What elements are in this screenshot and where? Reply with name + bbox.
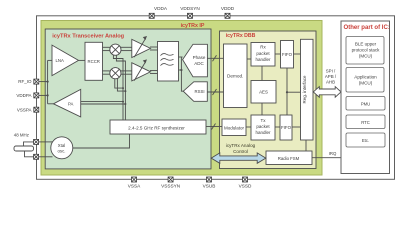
pin RF_IO bbox=[34, 79, 39, 84]
svg-text:VSUB: VSUB bbox=[203, 184, 216, 189]
svg-text:VDDSYN: VDDSYN bbox=[180, 6, 200, 11]
wire mixer1 to amp1 pair bbox=[120, 46, 132, 48]
icyTRx Transceiver Analog box bbox=[45, 29, 211, 169]
wire VDDPA stub bbox=[39, 94, 48, 96]
svg-text:SPI /: SPI / bbox=[326, 69, 336, 74]
wire RF_IO to junction bbox=[39, 81, 48, 83]
wire RCCR to mixer1 pair bbox=[103, 46, 111, 48]
svg-text:Other part of IC:: Other part of IC: bbox=[344, 25, 390, 31]
svg-text:icyTRx DBB: icyTRx DBB bbox=[226, 33, 256, 39]
RF synthesizer bbox=[110, 120, 206, 134]
svg-text:icyTRx IP: icyTRx IP bbox=[181, 23, 205, 29]
wire filter lower tap bbox=[179, 69, 182, 71]
FIFO 2 bbox=[280, 115, 292, 140]
wire crystal bottom bbox=[25, 151, 34, 157]
svg-text:Reg. interface: Reg. interface bbox=[302, 75, 307, 104]
Tx packet handler bbox=[251, 115, 275, 140]
wire vertical to RSSI bbox=[181, 57, 183, 91]
Other part of IC box bbox=[341, 21, 390, 174]
LO junction dots bbox=[122, 87, 124, 89]
svg-text:AES: AES bbox=[259, 90, 268, 95]
mixer M1 bbox=[110, 44, 121, 55]
svg-text:VSSPA: VSSPA bbox=[17, 107, 32, 112]
wire tx to fifo2 bbox=[275, 126, 280, 128]
svg-text:Rx: Rx bbox=[260, 45, 266, 50]
svg-text:VDDPA: VDDPA bbox=[16, 93, 31, 98]
wire vertical RF trunk bbox=[47, 60, 49, 103]
svg-text:FIFO: FIFO bbox=[282, 52, 293, 57]
wire synth to modulator bbox=[206, 126, 222, 128]
outer chip box bbox=[37, 16, 395, 180]
wire filter to Phase ADC tip bbox=[179, 56, 183, 58]
svg-text:(MCU): (MCU) bbox=[359, 80, 373, 85]
wire mixer2 to amp2 pair bbox=[120, 70, 132, 72]
Radio FSM bbox=[266, 151, 312, 165]
wire modulator to tx bbox=[246, 126, 251, 128]
wire fifo2 to reg bbox=[292, 126, 301, 128]
svg-text:PMU: PMU bbox=[361, 101, 370, 106]
svg-text:Modulator: Modulator bbox=[224, 125, 245, 130]
svg-text:Demod.: Demod. bbox=[227, 74, 243, 79]
svg-text:RF_IO: RF_IO bbox=[18, 79, 32, 84]
wire reg to radio fsm bbox=[305, 140, 307, 151]
svg-text:VDDD: VDDD bbox=[221, 6, 235, 11]
crystal 48MHz bbox=[14, 146, 34, 151]
svg-text:VDDA: VDDA bbox=[154, 6, 168, 11]
Etc box bbox=[346, 133, 385, 147]
pin VDDPA bbox=[34, 93, 39, 98]
svg-text:VSSSYN: VSSSYN bbox=[161, 184, 180, 189]
Application box bbox=[346, 68, 384, 93]
svg-text:2.4-2.5 GHz RF synthesizer: 2.4-2.5 GHz RF synthesizer bbox=[128, 125, 185, 130]
wire Phase ADC to Demod bbox=[207, 57, 223, 59]
wire LO trunk pair mixer1 to synth bbox=[113, 54, 123, 120]
svg-text:PA: PA bbox=[68, 101, 74, 106]
wire PA input pair bbox=[81, 101, 123, 103]
wire demod to rx bbox=[247, 58, 251, 60]
svg-text:RSSI: RSSI bbox=[194, 89, 204, 94]
PA bbox=[54, 89, 81, 117]
channel filter bbox=[158, 42, 179, 82]
pin VDDSYN bbox=[188, 13, 193, 18]
SPI double arrow bbox=[313, 87, 341, 98]
svg-text:RCCR: RCCR bbox=[87, 59, 99, 64]
svg-text:FIFO: FIFO bbox=[281, 125, 292, 130]
wire rx to aes bbox=[261, 66, 263, 81]
pin VDDA bbox=[149, 13, 154, 18]
Phase ADC bbox=[183, 44, 208, 77]
svg-text:Control: Control bbox=[233, 149, 248, 154]
pin VSSPA bbox=[34, 107, 39, 112]
svg-text:LNA: LNA bbox=[56, 58, 64, 63]
Xtal oscillator bbox=[51, 137, 73, 159]
svg-text:Etc.: Etc. bbox=[362, 138, 369, 143]
svg-text:IRQ: IRQ bbox=[329, 151, 337, 156]
RSSI bbox=[183, 82, 207, 102]
svg-text:Application: Application bbox=[354, 75, 377, 80]
wire LNA to RCCR bbox=[79, 59, 86, 61]
svg-text:BLE upper: BLE upper bbox=[355, 41, 377, 46]
wire crystal top bbox=[24, 142, 34, 146]
svg-text:handler: handler bbox=[255, 57, 271, 62]
junction dots bbox=[47, 81, 49, 83]
bus slash marks bbox=[212, 55, 217, 129]
svg-text:icyTRx Analog: icyTRx Analog bbox=[226, 143, 256, 148]
svg-text:VSSA: VSSA bbox=[128, 184, 141, 189]
wire aes to tx bbox=[261, 103, 263, 115]
PMU box bbox=[346, 97, 385, 111]
svg-text:handler: handler bbox=[255, 130, 271, 135]
svg-text:RTC: RTC bbox=[361, 120, 370, 125]
slash on synth-modulator wire bbox=[212, 124, 216, 130]
svg-text:packet: packet bbox=[256, 51, 270, 56]
wire PA output bbox=[48, 103, 54, 105]
svg-text:Phase: Phase bbox=[193, 55, 206, 60]
icyTRx IP box bbox=[41, 21, 322, 176]
pin XTAL1 bbox=[34, 139, 39, 144]
svg-text:osc.: osc. bbox=[58, 148, 66, 153]
blue analog control arrow bbox=[211, 153, 266, 163]
mixer M2 bbox=[110, 68, 121, 79]
FIFO 1 bbox=[281, 41, 294, 69]
VGA amp A2 bbox=[132, 59, 151, 81]
wire mixer2 LO feed pair bbox=[115, 78, 123, 88]
pin XTAL2 bbox=[34, 154, 39, 159]
svg-text:APB /: APB / bbox=[325, 74, 337, 79]
wire amp2 to filter pair bbox=[150, 70, 158, 72]
pin VSSSYN bbox=[168, 177, 173, 182]
wire to LNA input bbox=[48, 59, 52, 61]
Rx packet handler bbox=[251, 43, 275, 67]
slash on RSSI-demod wire bbox=[213, 89, 217, 95]
Reg. interface bbox=[301, 39, 314, 140]
Modulator bbox=[222, 119, 246, 136]
wire RSSI to Demod bbox=[207, 91, 223, 93]
LNA bbox=[52, 45, 79, 76]
svg-text:packet: packet bbox=[256, 124, 270, 129]
wire RCCR to mixer2 pair bbox=[103, 70, 111, 72]
wires group bbox=[24, 47, 342, 158]
svg-text:Radio FSM: Radio FSM bbox=[278, 156, 300, 161]
svg-text:ADC: ADC bbox=[194, 61, 204, 66]
pin VSUB bbox=[207, 177, 212, 182]
wire fifo1 to reg bbox=[294, 53, 301, 55]
RTC box bbox=[346, 115, 385, 129]
svg-text:VSSD: VSSD bbox=[239, 184, 252, 189]
pin VDDD bbox=[225, 13, 230, 18]
wire radio fsm to IRQ bbox=[312, 157, 341, 159]
VGA amp A1 bbox=[132, 36, 151, 58]
svg-text:Tx: Tx bbox=[261, 118, 267, 123]
Demod bbox=[224, 44, 248, 108]
wire xtal to synth bbox=[73, 134, 130, 148]
BLE upper protocol stack box bbox=[346, 37, 384, 65]
wire amp1 to filter pair bbox=[150, 46, 158, 48]
pin VSSA bbox=[132, 177, 137, 182]
svg-text:AHB: AHB bbox=[326, 80, 335, 85]
wire fifo trunk bbox=[286, 68, 288, 115]
RCCR bbox=[85, 42, 103, 80]
svg-text:(MCU): (MCU) bbox=[359, 53, 373, 58]
AES bbox=[251, 81, 276, 104]
wire xtal pin1 bbox=[39, 141, 53, 143]
svg-text:icyTRx Transceiver Analog: icyTRx Transceiver Analog bbox=[52, 33, 124, 39]
wire xtal pin2 bbox=[39, 156, 53, 158]
svg-text:48 MHz: 48 MHz bbox=[14, 133, 29, 138]
wire rx to fifo1 bbox=[275, 53, 281, 55]
icyTRx DBB box bbox=[220, 31, 317, 169]
svg-text:Xtal: Xtal bbox=[58, 143, 65, 148]
wire trunk to reg bbox=[287, 91, 301, 93]
svg-text:protocol stack: protocol stack bbox=[352, 47, 381, 52]
slash on ADC-demod wire bbox=[213, 55, 217, 61]
pin VSSD bbox=[243, 177, 248, 182]
